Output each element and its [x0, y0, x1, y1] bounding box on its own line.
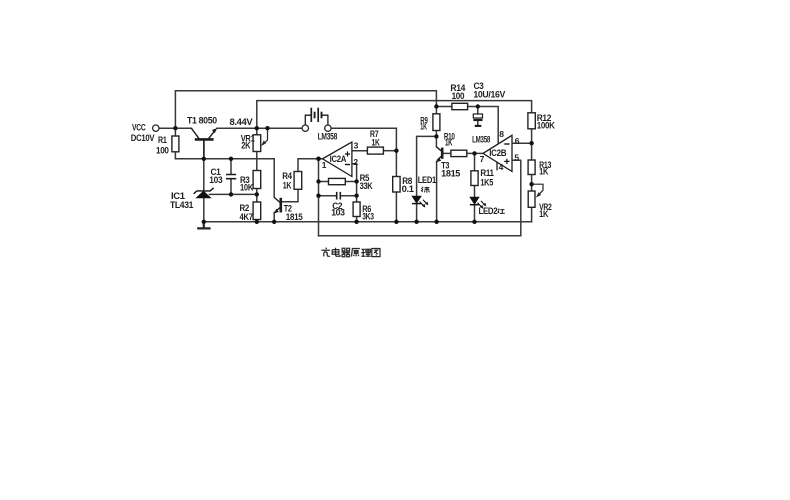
node R14/R9 supply [434, 104, 438, 108]
svg-text:8.44V: 8.44V [230, 117, 253, 127]
wire R4 top to IC2A output node [298, 159, 319, 172]
svg-text:103: 103 [209, 175, 222, 185]
wire VCC junction to T1 collector [175, 127, 191, 129]
wire R1 leads [174, 128, 176, 159]
wire VR2 bottom to ground rail [531, 207, 533, 222]
svg-text:IC2B: IC2B [489, 148, 507, 158]
wire R12 bottom to pin6 node [531, 129, 533, 143]
wire IC2B output apex stub [475, 152, 484, 154]
wire C2 left lead [319, 195, 337, 197]
svg-text:4: 4 [499, 162, 504, 172]
wire R6 bottom to ground rail [356, 217, 358, 222]
resistor R12 [528, 113, 535, 129]
char 充 [321, 248, 330, 257]
capacitor C2 [337, 192, 341, 200]
wire IC2B pin4 stub [496, 162, 498, 169]
wire feedback vertical from output node down across ground rail to lower rail [318, 159, 320, 236]
battery terminal circle right [325, 125, 331, 131]
VR1 wiper arrow [263, 128, 268, 144]
wire R14 line from R9 node to C3 node to IC2B pin8 [436, 107, 498, 145]
wire R9 bottom to junction [435, 131, 437, 137]
svg-text:LM358: LM358 [318, 132, 338, 142]
svg-text:6: 6 [515, 136, 520, 146]
resistor R7 [367, 147, 383, 154]
node VR1 wiper tap [265, 126, 269, 130]
node IC2B output / R10 / R11 [472, 151, 476, 155]
svg-text:1K: 1K [283, 181, 292, 191]
wire TL431 cathode [203, 159, 205, 191]
capacitor C1 [226, 175, 236, 179]
IC1 TL431 zener symbol [197, 191, 211, 197]
wire R9 top lead [435, 107, 437, 114]
op-amp U1A IC2A triangle [323, 142, 352, 177]
wire T2 emitter to ground rail [273, 213, 275, 222]
wire C3 top lead [477, 107, 479, 114]
wire T2 base to R4 bottom [281, 189, 298, 202]
wire LED1 cathode to ground rail [416, 204, 418, 222]
wire LED1 branch left and down [417, 136, 437, 196]
resistor R14 [452, 103, 468, 109]
junction dots [173, 104, 534, 224]
svg-text:1815: 1815 [286, 212, 303, 222]
wire T1 base rail y=158.8 from R1 bottom to T2 collector corner [175, 159, 274, 198]
svg-text:1815: 1815 [441, 169, 460, 179]
LED1 diode [412, 196, 421, 203]
node ground rail LED2 [472, 220, 476, 224]
wire T1 base vertical [203, 140, 205, 159]
svg-text:1K: 1K [420, 122, 427, 132]
transistor T3 1815 [436, 147, 442, 160]
wire top rail A from VCC node up and across to R9/R14 node [175, 91, 436, 128]
wire IC2B pin6 to divider [512, 142, 532, 144]
ground symbol [197, 222, 210, 229]
wire IC2A output apex stub [319, 158, 323, 160]
wire C1 leads [230, 159, 232, 195]
svg-text:100: 100 [452, 91, 465, 101]
svg-text:LM358: LM358 [472, 135, 490, 145]
IC2B plus input mark [504, 159, 509, 164]
svg-text:0.1: 0.1 [402, 184, 414, 194]
node C2 right [354, 194, 358, 198]
potentiometer VR1 body [253, 135, 261, 152]
wire VR1 to R3 to junction to R2 chain [256, 152, 258, 222]
resistor R1 [172, 136, 179, 152]
node TL431 ref / C1 bottom [229, 192, 233, 196]
wire TL431 anode to ground rail [203, 198, 205, 222]
node ground rail LED1 [414, 220, 418, 224]
wire R5 right lead [345, 181, 356, 183]
svg-text:10K: 10K [240, 182, 254, 192]
wire T3 base to R10 [443, 152, 451, 154]
wire R7 right to sense node [383, 150, 396, 152]
resistor R10 [451, 150, 467, 156]
node C3 top [476, 104, 480, 108]
node ground rail T2 emitter [272, 220, 276, 224]
node ground rail TL431 [202, 220, 206, 224]
capacitor C3 electrolytic [473, 114, 482, 118]
wire lower rail y=235.8 to IC2B pin5 [319, 160, 521, 236]
svg-text:1: 1 [322, 160, 327, 170]
wire VCC input to junction [159, 127, 175, 129]
wire T3 collector vertical [435, 136, 437, 146]
wire LED2 cathode to ground rail [474, 205, 476, 222]
IC2A minus input mark [345, 164, 350, 166]
node R7/R8 sense [394, 149, 398, 153]
wire IC2A pin3 to R7 [352, 150, 368, 152]
svg-text:IC2A: IC2A [330, 154, 347, 164]
wire R11 top lead [474, 153, 476, 170]
svg-text:LED1: LED1 [418, 175, 437, 185]
svg-text:T1 8050: T1 8050 [187, 116, 217, 126]
wire T3 emitter to ground rail [436, 161, 438, 221]
svg-text:TL431: TL431 [170, 200, 193, 210]
wire battery right terminal to corner and down to R8 top [331, 128, 396, 176]
char 图 [372, 249, 380, 257]
node R5 right [354, 179, 358, 183]
svg-text:33K: 33K [360, 181, 373, 191]
node ground rail R8 [394, 220, 398, 224]
node IC2B pin6 / R12 / R13 [529, 141, 533, 145]
svg-text:2: 2 [353, 157, 358, 167]
char 理 [361, 249, 370, 256]
wire pin6 node to R13 [531, 143, 533, 160]
node R13 / VR2 wiper [529, 182, 533, 186]
wire C2 right lead [341, 195, 357, 197]
node R3/R2 divider [255, 192, 259, 196]
svg-text:8: 8 [499, 129, 504, 139]
resistor R8 [393, 177, 400, 193]
resistor R4 [294, 172, 302, 190]
char 原 [352, 249, 360, 257]
svg-text:LED2: LED2 [479, 206, 498, 216]
resistor R2 [253, 202, 261, 220]
svg-text:2K: 2K [241, 140, 251, 150]
resistor R3 [253, 171, 261, 189]
wire 8.44V line T1 emitter to battery left terminal [217, 127, 302, 129]
wire ground rail y=221.8 [204, 221, 532, 223]
svg-text:1K: 1K [445, 138, 453, 148]
char 电 [332, 248, 340, 257]
svg-text:103: 103 [331, 207, 345, 217]
LED2 diode [470, 197, 479, 204]
wire rail B from 8.44V node up and across to R12 top [257, 101, 532, 129]
node ground rail R2 [255, 220, 259, 224]
svg-text:3K3: 3K3 [362, 212, 374, 222]
resistor R6 [353, 202, 360, 217]
battery cells [305, 108, 328, 125]
IC2B minus input mark [504, 143, 509, 145]
node R9 bottom / T3 collector [434, 134, 438, 138]
VR2 wiper arrow [532, 184, 543, 196]
resistor R13 [528, 160, 535, 175]
node VCC/R1 [173, 126, 177, 130]
wire R13 bottom to VR2 node [531, 175, 533, 192]
LED2 emission arrows [478, 201, 486, 208]
battery terminal circle left [302, 125, 308, 131]
svg-text:1K5: 1K5 [480, 177, 493, 187]
node 8.44V/VR1 [255, 126, 259, 130]
wire R11 bottom to LED2 [474, 186, 476, 198]
node R5 left [316, 179, 320, 183]
node ground rail R6 [354, 220, 358, 224]
resistor R5 [329, 178, 346, 184]
wire R5 left lead [319, 181, 329, 183]
wire VR1 top lead [256, 128, 258, 135]
resistor R9 [433, 114, 440, 131]
LED1 emission arrows [420, 200, 428, 207]
wire R10 right to IC2B output node [467, 152, 475, 154]
node T1 base rail / TL431 [202, 157, 206, 161]
svg-text:3: 3 [354, 140, 359, 150]
label 绿 (LED1 green) drawn strokes [421, 187, 429, 193]
resistor R11 [471, 171, 478, 186]
svg-text:VCC: VCC [132, 123, 146, 133]
potentiometer VR2 body [528, 191, 535, 207]
wire TL431 ref to divider junction [210, 193, 257, 195]
svg-text:DC10V: DC10V [131, 133, 155, 143]
transistor T2 1815 [274, 197, 281, 212]
wire R8 bottom to ground rail [395, 192, 397, 222]
wire IC2A pin2 stub down to feedback node [352, 164, 357, 202]
char 器 [342, 248, 351, 256]
node IC2A output [316, 157, 321, 162]
node C1 top [229, 157, 233, 161]
transistor T1 8050 [192, 128, 216, 158]
svg-text:100K: 100K [537, 120, 556, 130]
node ground rail T3 emitter [434, 220, 438, 224]
svg-text:100: 100 [156, 146, 169, 156]
wire C3 bottom lead [477, 121, 479, 126]
VCC input terminal circle [153, 125, 159, 131]
svg-text:1K: 1K [539, 167, 549, 177]
node C2 left [316, 194, 320, 198]
svg-text:4K7: 4K7 [240, 212, 253, 222]
svg-text:1K: 1K [539, 209, 549, 219]
svg-text:5: 5 [514, 152, 519, 162]
IC2A plus input mark [345, 151, 350, 156]
label 红 (LED2 red) drawn strokes [498, 209, 505, 214]
svg-text:10U/16V: 10U/16V [473, 90, 505, 100]
svg-text:R1: R1 [158, 135, 167, 145]
svg-text:7: 7 [480, 154, 485, 164]
op-amp U1B IC2B triangle [483, 135, 512, 171]
caption 充电器原理图 drawn strokes [321, 248, 380, 257]
svg-text:1K: 1K [372, 137, 381, 147]
